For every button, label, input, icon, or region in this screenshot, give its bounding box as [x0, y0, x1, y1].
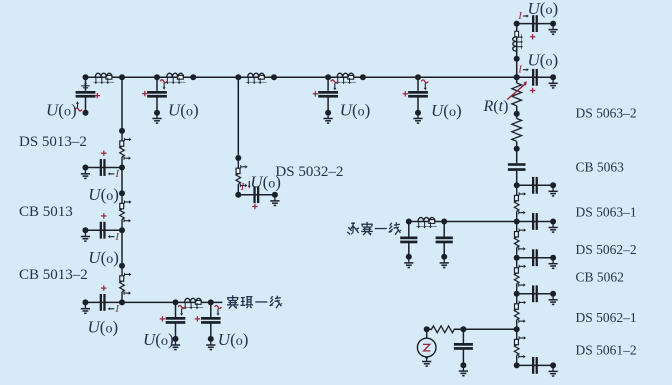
svg-text:U(o): U(o)	[431, 101, 462, 120]
svg-text:DS 5063–2: DS 5063–2	[576, 106, 637, 121]
svg-text:DS 5062–1: DS 5062–1	[576, 310, 637, 325]
svg-text:U(o): U(o)	[528, 50, 559, 69]
svg-text:CB 5063: CB 5063	[576, 160, 625, 175]
svg-text:U(o): U(o)	[88, 185, 119, 204]
svg-text:DS 5032–2: DS 5032–2	[275, 164, 343, 180]
svg-text:U(o): U(o)	[88, 318, 119, 337]
svg-text:DS 5063–1: DS 5063–1	[576, 205, 637, 220]
svg-text:U(o): U(o)	[218, 330, 249, 349]
svg-text:U(o): U(o)	[340, 101, 371, 120]
svg-text:CB 5013–2: CB 5013–2	[19, 267, 88, 283]
svg-text:U(o): U(o)	[46, 101, 77, 120]
svg-text:U(o): U(o)	[168, 101, 199, 120]
svg-text:DS 5061–2: DS 5061–2	[576, 342, 637, 357]
svg-text:DS 5013–2: DS 5013–2	[19, 134, 87, 150]
svg-text:DS 5062–2: DS 5062–2	[576, 242, 637, 257]
svg-text:CB 5013: CB 5013	[19, 204, 73, 220]
svg-text:CB 5062: CB 5062	[576, 270, 624, 285]
svg-text:U(o): U(o)	[528, 0, 559, 18]
svg-text:R(t): R(t)	[483, 98, 509, 115]
svg-text:U(o): U(o)	[143, 330, 174, 349]
svg-text:U(o): U(o)	[88, 248, 119, 267]
